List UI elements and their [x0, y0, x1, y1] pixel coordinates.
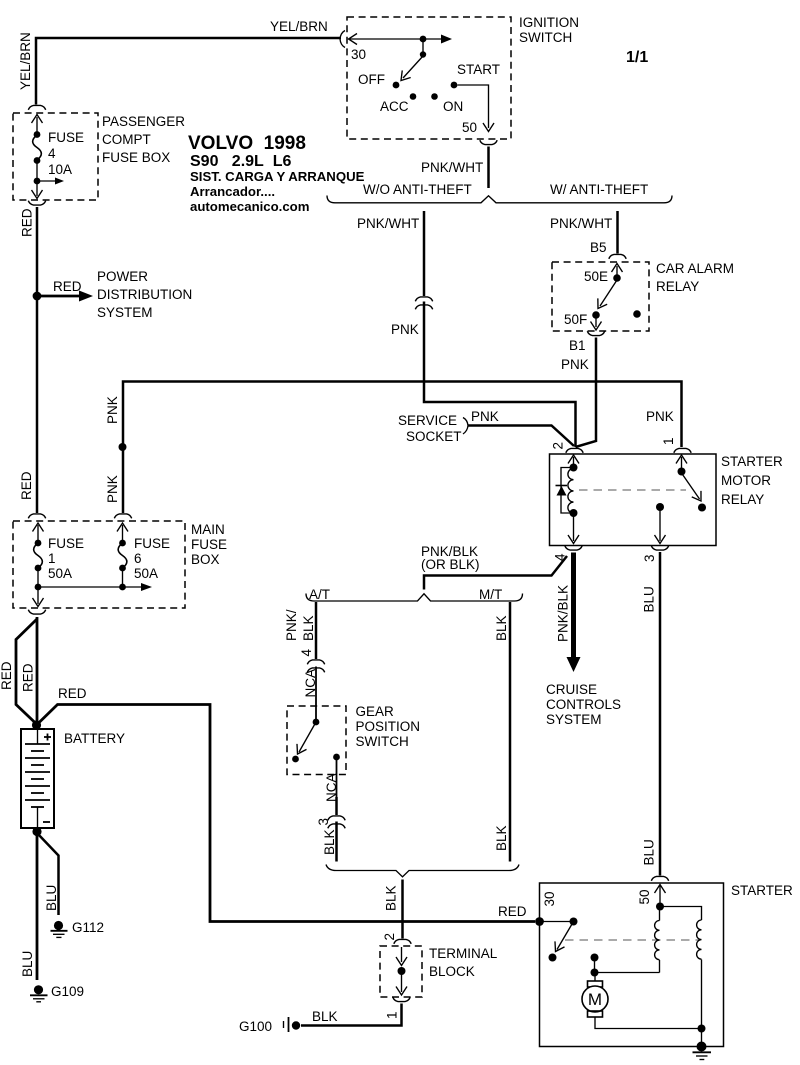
- svg-text:BOX: BOX: [191, 552, 220, 567]
- svg-text:RELAY: RELAY: [656, 279, 699, 294]
- svg-text:SYSTEM: SYSTEM: [97, 305, 153, 320]
- svg-text:POSITION: POSITION: [356, 719, 421, 734]
- svg-text:BLU: BLU: [642, 586, 657, 612]
- svg-text:RED: RED: [19, 471, 34, 500]
- svg-text:BLK: BLK: [301, 615, 316, 641]
- svg-text:IGNITION: IGNITION: [519, 15, 579, 30]
- svg-text:A/T: A/T: [309, 587, 330, 602]
- svg-text:COMPT: COMPT: [102, 132, 151, 147]
- svg-text:YEL/BRN: YEL/BRN: [18, 32, 33, 90]
- svg-text:PNK: PNK: [391, 322, 419, 337]
- svg-text:BLK: BLK: [384, 885, 399, 911]
- svg-text:SIST. CARGA Y ARRANQUE: SIST. CARGA Y ARRANQUE: [190, 169, 365, 184]
- svg-text:BLU: BLU: [44, 885, 59, 911]
- svg-text:W/O ANTI-THEFT: W/O ANTI-THEFT: [363, 182, 472, 197]
- svg-text:YEL/BRN: YEL/BRN: [270, 19, 328, 34]
- svg-text:50F: 50F: [564, 312, 587, 327]
- svg-text:RED: RED: [58, 686, 87, 701]
- svg-text:OFF: OFF: [358, 72, 385, 87]
- svg-text:RED: RED: [0, 661, 14, 690]
- svg-text:30: 30: [542, 891, 557, 906]
- svg-text:SERVICE: SERVICE: [398, 413, 457, 428]
- svg-text:B1: B1: [569, 338, 586, 353]
- svg-text:RED: RED: [498, 904, 527, 919]
- svg-text:50: 50: [637, 889, 652, 904]
- svg-text:PNK/BLK: PNK/BLK: [556, 585, 571, 642]
- svg-text:VOLVO 1998: VOLVO 1998: [188, 133, 306, 154]
- svg-text:SOCKET: SOCKET: [406, 429, 462, 444]
- svg-text:RELAY: RELAY: [721, 492, 764, 507]
- svg-text:1: 1: [48, 551, 56, 566]
- svg-text:ON: ON: [443, 99, 463, 114]
- svg-text:50A: 50A: [134, 566, 158, 581]
- svg-text:automecanico.com: automecanico.com: [190, 199, 309, 214]
- svg-text:CONTROLS: CONTROLS: [546, 697, 621, 712]
- svg-text:TERMINAL: TERMINAL: [429, 946, 498, 961]
- svg-text:BLU: BLU: [20, 951, 35, 977]
- svg-text:PNK/WHT: PNK/WHT: [357, 216, 419, 231]
- svg-text:GEAR: GEAR: [356, 704, 395, 719]
- svg-text:BLK: BLK: [322, 829, 337, 855]
- svg-text:1: 1: [661, 437, 676, 445]
- svg-text:(OR BLK): (OR BLK): [421, 557, 480, 572]
- svg-text:START: START: [457, 62, 500, 77]
- svg-text:SWITCH: SWITCH: [356, 734, 409, 749]
- svg-text:BLOCK: BLOCK: [429, 964, 475, 979]
- svg-text:6: 6: [134, 551, 142, 566]
- svg-text:CRUISE: CRUISE: [546, 682, 597, 697]
- svg-text:MAIN: MAIN: [191, 522, 225, 537]
- svg-text:BLK: BLK: [494, 615, 509, 641]
- svg-text:B5: B5: [590, 240, 607, 255]
- svg-text:50: 50: [462, 120, 477, 135]
- svg-text:DISTRIBUTION: DISTRIBUTION: [97, 287, 192, 302]
- svg-text:PASSENGER: PASSENGER: [102, 114, 185, 129]
- svg-text:Arrancador....: Arrancador....: [190, 184, 275, 199]
- svg-text:PNK: PNK: [471, 409, 499, 424]
- svg-text:POWER: POWER: [97, 269, 148, 284]
- svg-text:BLU: BLU: [642, 839, 657, 865]
- svg-text:PNK: PNK: [646, 409, 674, 424]
- svg-text:MOTOR: MOTOR: [721, 473, 771, 488]
- svg-text:30: 30: [351, 47, 366, 62]
- svg-text:50E: 50E: [584, 269, 608, 284]
- svg-text:CAR ALARM: CAR ALARM: [656, 261, 734, 276]
- svg-text:FUSE: FUSE: [191, 537, 227, 552]
- svg-text:SYSTEM: SYSTEM: [546, 712, 602, 727]
- svg-text:FUSE BOX: FUSE BOX: [102, 150, 170, 165]
- svg-text:1: 1: [385, 1011, 400, 1019]
- svg-text:BLK: BLK: [312, 1009, 338, 1024]
- svg-text:BLK: BLK: [494, 825, 509, 851]
- svg-text:RED: RED: [20, 208, 35, 237]
- svg-text:50A: 50A: [48, 566, 72, 581]
- svg-text:FUSE: FUSE: [48, 130, 84, 145]
- svg-text:S90 2.9L L6: S90 2.9L L6: [190, 153, 291, 170]
- svg-text:PNK/WHT: PNK/WHT: [421, 160, 483, 175]
- svg-text:4: 4: [48, 146, 56, 161]
- svg-text:PNK: PNK: [105, 475, 120, 503]
- svg-text:3: 3: [642, 554, 657, 562]
- svg-text:2: 2: [551, 442, 566, 450]
- svg-text:FUSE: FUSE: [48, 536, 84, 551]
- svg-text:ACC: ACC: [380, 99, 409, 114]
- svg-text:G100: G100: [239, 1019, 272, 1034]
- svg-text:PNK: PNK: [105, 396, 120, 424]
- svg-text:M: M: [588, 990, 602, 1009]
- svg-text:PNK/WHT: PNK/WHT: [550, 216, 612, 231]
- svg-text:SWITCH: SWITCH: [519, 30, 572, 45]
- svg-text:NCA: NCA: [324, 773, 339, 802]
- svg-text:1/1: 1/1: [626, 49, 648, 66]
- svg-text:PNK: PNK: [561, 357, 589, 372]
- svg-text:PNK/: PNK/: [284, 609, 299, 641]
- svg-text:BATTERY: BATTERY: [64, 731, 125, 746]
- svg-text:2: 2: [382, 933, 397, 941]
- svg-text:4: 4: [299, 649, 314, 657]
- svg-text:M/T: M/T: [479, 587, 502, 602]
- svg-text:STARTER: STARTER: [731, 883, 793, 898]
- svg-text:RED: RED: [21, 663, 36, 692]
- svg-text:G112: G112: [72, 920, 104, 935]
- svg-text:FUSE: FUSE: [134, 536, 170, 551]
- svg-text:10A: 10A: [48, 162, 72, 177]
- svg-text:G109: G109: [51, 984, 84, 999]
- svg-text:STARTER: STARTER: [721, 454, 783, 469]
- svg-text:RED: RED: [53, 279, 82, 294]
- svg-text:W/ ANTI-THEFT: W/ ANTI-THEFT: [550, 182, 648, 197]
